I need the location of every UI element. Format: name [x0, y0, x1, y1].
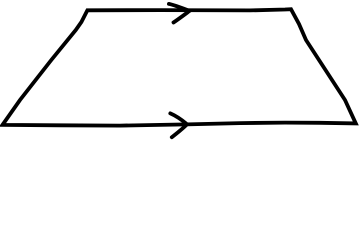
bottom parallel-mark arrow — [170, 113, 187, 137]
trapezoid outline (bottom-left, left edge up, top edge, right edge down, bottom edge back) — [3, 9, 356, 125]
top parallel-mark arrow — [169, 4, 190, 23]
